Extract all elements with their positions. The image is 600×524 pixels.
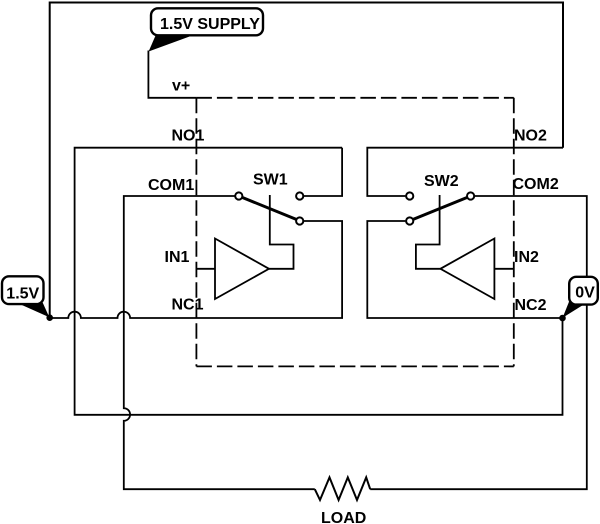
svg-text:LOAD: LOAD xyxy=(321,510,366,524)
resistor LOAD xyxy=(315,477,370,500)
svg-text:1.5V SUPPLY: 1.5V SUPPLY xyxy=(160,16,260,33)
svg-text:IN2: IN2 xyxy=(514,249,539,266)
switch SW2 (SPDT, lever in NC position) xyxy=(406,192,474,224)
svg-text:COM2: COM2 xyxy=(513,176,559,193)
wire NO2: NO2 pin wire from frame xyxy=(367,148,563,196)
svg-text:SW2: SW2 xyxy=(424,173,459,190)
svg-text:NC2: NC2 xyxy=(515,297,547,314)
svg-text:SW1: SW1 xyxy=(253,172,288,189)
wire COM2: SW2 pole right then down to LOAD right xyxy=(370,196,587,489)
svg-text:COM1: COM1 xyxy=(148,177,194,194)
callout: 0V node label xyxy=(563,277,598,318)
wire IN1 stub xyxy=(196,268,215,270)
node dot: 0V junction xyxy=(559,315,566,322)
wire: buffer1 output to SW1 actuator xyxy=(269,195,294,269)
svg-text:IN1: IN1 xyxy=(165,249,190,266)
wire: outer frame 1.5V net (left border, top border, right border down to NO2) xyxy=(50,3,563,318)
callout: 1.5V node label xyxy=(2,276,49,317)
svg-text:NO1: NO1 xyxy=(172,128,205,145)
wire NC2: SW2 bottom throw to 0V node xyxy=(367,221,562,318)
wire NO1 loop: NO1 pin to 0V node xyxy=(75,148,563,415)
wire NC1: SW1 bottom throw to 1.5V node (hops over verticals) xyxy=(50,221,342,318)
wire IN2 stub xyxy=(494,268,513,270)
wire: supply drop from callout to v+ pin xyxy=(148,51,196,98)
buffer amplifier 2 (drives SW2) xyxy=(440,239,494,300)
wire: buffer2 output to SW2 actuator xyxy=(416,195,441,269)
svg-text:NC1: NC1 xyxy=(172,297,204,314)
IC package outline U1 (dashed box) xyxy=(196,98,513,367)
wire COM1: SW1 pole to LOAD left (hops over NO1 bottom wire) xyxy=(124,196,315,489)
callout: 1.5V SUPPLY xyxy=(149,8,263,51)
svg-text:1.5V: 1.5V xyxy=(6,285,39,302)
svg-text:NO2: NO2 xyxy=(514,128,547,145)
node dot: 1.5V junction xyxy=(46,314,53,321)
wire NO1 down-leg into SW1 top throw xyxy=(304,148,342,196)
buffer amplifier 1 (drives SW1) xyxy=(215,239,269,300)
switch SW1 (SPDT, lever in NC position) xyxy=(235,192,303,224)
svg-text:v+: v+ xyxy=(172,78,190,95)
svg-text:0V: 0V xyxy=(575,284,595,301)
